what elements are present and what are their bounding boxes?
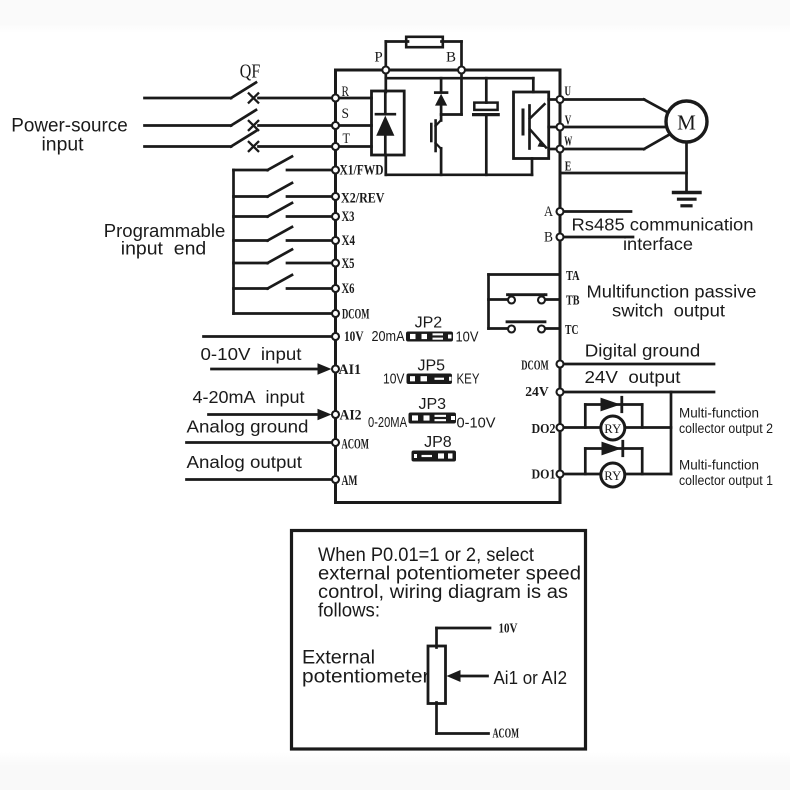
svg-text:B: B (446, 50, 456, 66)
svg-text:4-20mA input: 4-20mA input (193, 387, 305, 407)
svg-text:R: R (342, 84, 350, 100)
svg-text:E: E (565, 160, 572, 175)
svg-text:B: B (544, 230, 553, 246)
svg-text:follows:: follows: (318, 601, 380, 622)
svg-text:JP2: JP2 (415, 315, 443, 332)
svg-text:collector output 1: collector output 1 (679, 473, 773, 488)
svg-text:X6: X6 (342, 281, 355, 297)
svg-text:A: A (544, 204, 553, 220)
svg-text:X2/REV: X2/REV (341, 191, 385, 207)
svg-text:W: W (564, 135, 572, 150)
svg-text:DCOM: DCOM (521, 359, 549, 374)
svg-text:X3: X3 (342, 209, 355, 225)
svg-text:Power-source: Power-source (11, 116, 128, 137)
svg-text:M: M (677, 111, 696, 135)
svg-text:JP5: JP5 (418, 358, 446, 375)
svg-text:Multi-function: Multi-function (679, 406, 759, 421)
svg-text:interface: interface (623, 234, 693, 254)
svg-text:S: S (342, 106, 350, 122)
svg-text:24V: 24V (525, 385, 549, 400)
svg-text:switch output: switch output (612, 301, 725, 321)
svg-text:ACOM: ACOM (342, 437, 370, 453)
svg-text:X1/FWD: X1/FWD (340, 163, 384, 179)
svg-text:T: T (343, 131, 351, 147)
svg-text:ACOM: ACOM (493, 726, 520, 741)
svg-text:RY: RY (604, 421, 622, 436)
svg-text:AI2: AI2 (340, 408, 362, 424)
svg-text:20mA: 20mA (372, 328, 405, 345)
svg-text:input end: input end (121, 239, 207, 259)
svg-text:P: P (374, 50, 382, 66)
svg-text:AM: AM (342, 473, 358, 489)
svg-text:TB: TB (566, 294, 580, 309)
svg-text:KEY: KEY (457, 371, 480, 388)
svg-text:Multi-function: Multi-function (679, 458, 759, 473)
svg-text:Digital ground: Digital ground (585, 341, 701, 361)
svg-text:DCOM: DCOM (342, 307, 370, 323)
svg-text:10V: 10V (383, 371, 405, 388)
svg-text:External: External (302, 648, 375, 669)
svg-text:Analog output: Analog output (187, 452, 303, 472)
svg-text:X4: X4 (342, 233, 356, 249)
svg-text:X5: X5 (342, 256, 355, 272)
svg-text:U: U (565, 85, 572, 100)
svg-text:10V: 10V (344, 329, 364, 345)
svg-text:input: input (42, 135, 85, 156)
svg-text:potentiometer: potentiometer (302, 667, 430, 688)
svg-text:0-10V: 0-10V (457, 415, 496, 432)
svg-text:10V: 10V (456, 329, 479, 346)
svg-text:AI1: AI1 (339, 362, 362, 378)
svg-text:JP3: JP3 (419, 396, 447, 413)
svg-text:Analog ground: Analog ground (187, 417, 309, 437)
svg-text:0-20MA: 0-20MA (368, 414, 407, 431)
svg-text:QF: QF (240, 61, 261, 83)
svg-text:10V: 10V (499, 621, 518, 636)
svg-text:DO1: DO1 (532, 468, 556, 483)
svg-text:DO2: DO2 (532, 422, 556, 437)
svg-text:TA: TA (566, 269, 580, 284)
svg-text:TC: TC (565, 323, 579, 338)
svg-text:V: V (565, 114, 572, 129)
svg-text:collector output 2: collector output 2 (679, 421, 773, 436)
svg-text:JP8: JP8 (424, 434, 452, 451)
svg-text:Ai1 or AI2: Ai1 or AI2 (494, 668, 568, 688)
svg-text:Multifunction passive: Multifunction passive (587, 282, 757, 302)
svg-text:Rs485 communication: Rs485 communication (572, 215, 754, 235)
svg-text:24V output: 24V output (585, 367, 681, 387)
svg-text:RY: RY (604, 468, 622, 483)
svg-text:0-10V input: 0-10V input (201, 344, 302, 364)
